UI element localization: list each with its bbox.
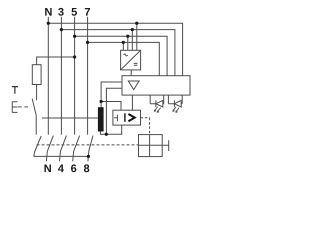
wire converter input 3 — [127, 36, 129, 50]
CT core line — [42, 117, 98, 119]
wire branch 7 to right side — [88, 42, 160, 75]
label T test button — [12, 87, 18, 94]
wire converter input 1 — [136, 23, 138, 50]
terminal label 6 — [71, 164, 76, 172]
terminal label N top — [45, 8, 51, 16]
switch blade N — [46, 136, 53, 162]
switch blade test — [34, 136, 41, 156]
pole line 3 — [60, 17, 62, 135]
wire CT secondary bottom — [100, 125, 121, 134]
wire converter input 2 — [131, 30, 133, 51]
node CT top — [100, 100, 103, 103]
node 3 branch — [60, 28, 63, 31]
push button actuator — [12, 102, 17, 113]
node test return — [87, 155, 90, 158]
test branch wire from pole 5 — [37, 57, 75, 65]
terminal label 4 — [58, 165, 64, 173]
node CT bottom — [105, 133, 108, 136]
test return line — [34, 155, 89, 157]
terminal label 7 — [85, 8, 90, 16]
LED indicator 1 — [150, 95, 164, 112]
wire branch N to right side — [48, 23, 182, 75]
node converter tap 3 — [126, 35, 129, 38]
wire converter input 4 — [122, 42, 124, 50]
terminal label N bottom — [44, 165, 50, 173]
node converter tap 2 — [131, 28, 134, 31]
dashed actuator link — [18, 106, 30, 108]
wire resistor to button — [36, 85, 38, 101]
mechanism box with cross — [139, 135, 163, 157]
node converter tap 1 — [135, 22, 138, 25]
wire amp to detector — [131, 95, 133, 110]
wire amp input A — [101, 82, 122, 102]
test resistor — [32, 65, 41, 85]
pole line 5 — [74, 17, 76, 135]
detector I> box U3 — [113, 110, 141, 125]
wire converter output — [130, 70, 132, 76]
LED indicator 2 — [168, 95, 182, 112]
wire button to blade — [35, 115, 37, 134]
wire CT secondary top — [101, 102, 121, 111]
terminal label 5 — [71, 8, 76, 16]
amplifier box U2 — [122, 76, 190, 95]
wire branch 3 to right side — [61, 30, 174, 76]
wire branch 5 to right side — [75, 36, 168, 75]
pole line N (supply) — [47, 17, 49, 135]
node N branch — [47, 22, 50, 25]
node converter tap 4 — [122, 41, 125, 44]
switch blade 8 — [88, 136, 93, 162]
triangle amplifier symbol — [128, 81, 139, 90]
node 5 branch — [73, 35, 76, 38]
wire amp input B — [106, 88, 122, 134]
switch blade 4 — [60, 136, 67, 162]
node 7 branch — [86, 41, 89, 44]
switch blade 6 — [73, 136, 80, 162]
AC/DC converter U1 — [121, 50, 141, 70]
CT secondary winding (black block) — [98, 107, 104, 131]
manual handle — [162, 140, 169, 151]
test button contact — [32, 99, 36, 116]
dashed trip link I> to mechanism — [141, 118, 150, 135]
terminal label 3 — [58, 8, 63, 16]
dashed mechanical linkage across contacts — [37, 144, 139, 146]
pole line 7 — [87, 17, 89, 135]
node test branch on pole 5 — [73, 55, 76, 58]
terminal label 8 — [84, 164, 89, 172]
